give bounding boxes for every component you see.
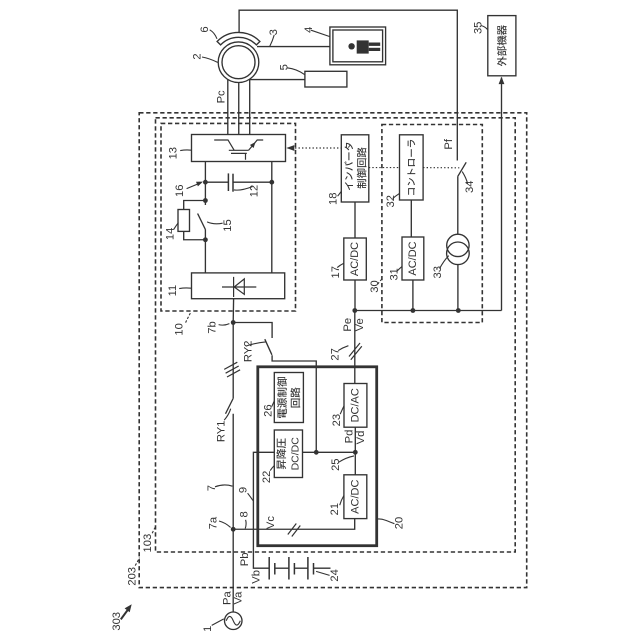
svg-text:Pc: Pc bbox=[216, 90, 228, 103]
IGBT emitter arrow bbox=[250, 142, 256, 148]
bundle slashes on main line bbox=[224, 362, 240, 377]
leader label 20 none bbox=[0, 0, 1, 1]
node RY2 junction dot bbox=[314, 450, 319, 455]
svg-text:Pd: Pd bbox=[343, 430, 355, 444]
svg-text:16: 16 bbox=[174, 185, 186, 197]
wire main RY1 to 7a bbox=[232, 414, 234, 530]
svg-text:30: 30 bbox=[369, 280, 381, 292]
wire Pe (bus to box23) bbox=[354, 311, 356, 384]
wire cap bank seg1 bbox=[275, 567, 289, 569]
AC source 1 bbox=[225, 612, 243, 630]
arrowhead into box 35 bbox=[499, 77, 505, 85]
transformer 33 lower circle bbox=[447, 242, 470, 265]
wire phase v bbox=[238, 82, 240, 134]
leader label 33 bbox=[440, 256, 449, 269]
capacitor bank 24 plates bbox=[269, 557, 313, 580]
leader label 10 (dashed) bbox=[186, 313, 191, 323]
leader label 21 bbox=[340, 496, 344, 506]
node resistor top dot bbox=[203, 198, 208, 203]
svg-text:9: 9 bbox=[238, 487, 250, 493]
dotted control line 32 to 34 bbox=[423, 167, 459, 169]
leader label 30 (dashed) bbox=[378, 279, 382, 284]
wire phase u bbox=[227, 80, 229, 135]
leader label RY1 bbox=[224, 409, 231, 421]
svg-text:3: 3 bbox=[268, 29, 280, 35]
AC source sine wave bbox=[226, 616, 240, 625]
svg-text:Pb: Pb bbox=[239, 553, 251, 567]
leader label 34 bbox=[462, 172, 467, 184]
resistor 14 bbox=[178, 210, 190, 232]
inverter control box 18 bbox=[341, 135, 369, 202]
svg-text:8: 8 bbox=[238, 511, 250, 517]
svg-text:5: 5 bbox=[279, 64, 291, 70]
svg-text:31: 31 bbox=[388, 268, 400, 280]
wire RY2 to box 20 bbox=[272, 355, 316, 452]
wire cap 12 right bbox=[233, 181, 272, 183]
wire bus to external device 35 bbox=[501, 78, 503, 311]
wire main 7b down bbox=[232, 323, 234, 399]
leader label 16 arrow bbox=[187, 183, 200, 188]
node cap right dot bbox=[269, 180, 274, 185]
svg-text:13: 13 bbox=[168, 147, 180, 159]
svg-text:DC/AC: DC/AC bbox=[349, 388, 361, 422]
power control circuit box 26 bbox=[274, 373, 303, 423]
wire resistor branch bottom bbox=[184, 231, 206, 239]
wire cap 12 left bbox=[205, 181, 228, 183]
node 7b dot bbox=[231, 320, 236, 325]
svg-text:7b: 7b bbox=[206, 321, 218, 333]
svg-text:Ve: Ve bbox=[354, 318, 366, 331]
leader label 2 bbox=[202, 57, 218, 62]
controller box 32 bbox=[400, 135, 424, 200]
coil 6 (arc segment) bbox=[217, 32, 260, 44]
label controller (box 32) bbox=[407, 140, 415, 195]
dashed box 103 (power conditioner) bbox=[156, 118, 516, 552]
wire 7a to source bbox=[232, 529, 234, 612]
buck-boost box 22 bbox=[274, 430, 302, 478]
leader label 7b bbox=[219, 324, 230, 326]
leader label 27 bbox=[338, 346, 348, 351]
svg-text:4: 4 bbox=[303, 27, 315, 33]
wire 9 bbox=[253, 452, 274, 568]
leader label 20 bbox=[377, 519, 395, 524]
node 16 dot bbox=[203, 180, 208, 185]
svg-text:RY1: RY1 bbox=[216, 421, 228, 443]
arrowhead label 16 bbox=[196, 182, 203, 187]
wire box31 to bus bbox=[412, 280, 414, 311]
bundle slashes on wire 8 bbox=[288, 524, 301, 537]
external device box 35 bbox=[488, 16, 516, 76]
svg-text:6: 6 bbox=[199, 26, 211, 32]
leader label 4 bbox=[311, 30, 330, 36]
leader label 26 bbox=[272, 401, 275, 407]
dashed box 30 (controller unit) bbox=[382, 125, 482, 323]
leader label 35 bbox=[481, 26, 487, 30]
capacitor C12 left plate bbox=[227, 173, 229, 191]
transformer 33 upper circle bbox=[447, 234, 469, 256]
converter box 11 bbox=[192, 273, 285, 299]
wire box17 to bus bbox=[354, 280, 356, 311]
node bus-33 dot bbox=[456, 308, 461, 313]
wire box18 to box17 bbox=[354, 202, 356, 238]
leader label 1 bbox=[212, 619, 224, 626]
wire transformer 33 to bus bbox=[457, 265, 459, 311]
switch 34 blade bbox=[458, 162, 467, 176]
leader label 3 bbox=[270, 35, 274, 46]
node bus-17 dot bbox=[352, 308, 357, 313]
svg-text:26: 26 bbox=[263, 404, 275, 416]
sensor box 5 bbox=[305, 71, 347, 87]
svg-text:14: 14 bbox=[165, 228, 177, 240]
wire box13 left leg upper bbox=[204, 162, 206, 206]
svg-text:34: 34 bbox=[464, 181, 476, 193]
wire phase w bbox=[249, 79, 251, 134]
leader label 22 bbox=[270, 466, 274, 471]
svg-text:Pe: Pe bbox=[342, 318, 354, 332]
svg-text:32: 32 bbox=[385, 195, 397, 207]
svg-text:Va: Va bbox=[233, 591, 245, 605]
svg-text:Vd: Vd bbox=[355, 431, 367, 445]
leader label 5 bbox=[287, 68, 304, 75]
leader label 24 bbox=[316, 571, 330, 575]
rotor ring 2 inner bbox=[222, 46, 255, 79]
wire to sensor 5 bbox=[249, 79, 305, 81]
svg-text:DC/DC: DC/DC bbox=[290, 437, 302, 471]
diode symbol in box 11 bbox=[222, 277, 256, 297]
wire 8 bbox=[233, 519, 355, 530]
bundle slashes on Pe line (27) bbox=[349, 343, 362, 360]
wire coil-6 to node Pf top bbox=[239, 10, 457, 160]
svg-text:35: 35 bbox=[473, 22, 485, 34]
leader label 11 bbox=[179, 287, 191, 290]
leader label 7 bbox=[215, 485, 232, 487]
svg-text:7a: 7a bbox=[208, 516, 220, 529]
svg-text:21: 21 bbox=[329, 503, 341, 515]
leader label 23 bbox=[340, 406, 344, 415]
svg-text:24: 24 bbox=[329, 569, 341, 581]
wire box32 to box31 bbox=[410, 200, 412, 237]
svg-text:10: 10 bbox=[173, 323, 185, 335]
converter box 21 AC/DC bbox=[344, 475, 367, 519]
leader label 12 bbox=[234, 187, 253, 191]
power unit box 20 (thick) bbox=[258, 367, 377, 546]
svg-text:AC/DC: AC/DC bbox=[349, 480, 361, 514]
wire resistor branch top bbox=[184, 201, 206, 210]
leader label 203 (dashed) bbox=[135, 558, 139, 566]
wire 3 (to display 4) bbox=[257, 46, 330, 48]
label seigyo-kairo col2 (box 18) bbox=[357, 147, 367, 188]
svg-text:RY2: RY2 bbox=[243, 341, 255, 363]
node bus-31 dot bbox=[411, 308, 416, 313]
leader label 8 bbox=[244, 520, 247, 529]
wire box13 left leg lower bbox=[204, 230, 206, 273]
relay RY2 blade bbox=[265, 339, 272, 355]
wire 7b to RY2 bbox=[233, 323, 272, 339]
node 7a dot bbox=[231, 527, 236, 532]
converter box 23 DC/AC bbox=[344, 384, 367, 428]
svg-text:303: 303 bbox=[111, 612, 123, 631]
arrowhead into box 13 bbox=[286, 145, 294, 151]
svg-text:2: 2 bbox=[192, 53, 204, 59]
inverter box 13 bbox=[192, 135, 286, 162]
person icon in box 4 bbox=[348, 40, 380, 53]
wire switch34 to transformer 33 bbox=[457, 177, 459, 235]
label dengen-seigyo (power control) col1 bbox=[277, 377, 287, 418]
svg-text:17: 17 bbox=[330, 266, 342, 278]
capacitor C12 right plate bbox=[232, 174, 234, 192]
leader label 13 bbox=[180, 149, 191, 152]
svg-text:Vb: Vb bbox=[251, 570, 263, 584]
wire box11 to node 7b bbox=[232, 299, 234, 323]
display box 4 inner bbox=[333, 30, 383, 62]
leader label 9 bbox=[248, 493, 253, 500]
node Pd dot bbox=[353, 450, 358, 455]
svg-text:33: 33 bbox=[432, 266, 444, 278]
rotor ring 2 outer bbox=[218, 42, 259, 83]
leader label 14 bbox=[174, 223, 179, 230]
svg-text:Vc: Vc bbox=[265, 516, 277, 529]
label inverter col1 (box 18) bbox=[344, 143, 353, 190]
node resistor bottom dot bbox=[203, 237, 208, 242]
label 303 arrow bbox=[121, 608, 129, 619]
label shoukouatsu (buck-boost) col1 bbox=[276, 438, 286, 469]
leader label 103 (dashed) bbox=[152, 526, 156, 533]
svg-text:AC/DC: AC/DC bbox=[407, 241, 419, 275]
wire box23 to box21 (node Pd) bbox=[354, 427, 356, 475]
svg-text:103: 103 bbox=[142, 534, 154, 553]
leader label 6 bbox=[210, 30, 217, 39]
leader label 7a bbox=[219, 521, 231, 527]
svg-text:11: 11 bbox=[167, 285, 179, 297]
display box 4 outer bbox=[330, 27, 386, 65]
wire box22 to node Pd bbox=[303, 451, 356, 453]
leader label 25 bbox=[339, 456, 354, 462]
wire cap bank seg3 bbox=[314, 567, 331, 569]
svg-text:23: 23 bbox=[331, 414, 343, 426]
svg-text:7: 7 bbox=[206, 485, 218, 491]
leader label 32 bbox=[393, 194, 400, 199]
dotted control line 18 to 13 bbox=[295, 147, 341, 149]
svg-text:20: 20 bbox=[394, 517, 406, 529]
wire box13 right leg bbox=[271, 162, 273, 273]
svg-text:12: 12 bbox=[249, 185, 261, 197]
svg-text:22: 22 bbox=[261, 471, 273, 483]
svg-text:25: 25 bbox=[330, 458, 342, 470]
leader label 17 bbox=[337, 263, 343, 267]
svg-text:Pf: Pf bbox=[443, 138, 455, 149]
AC/DC box 17 bbox=[344, 238, 367, 280]
wire cap bank seg2 bbox=[294, 567, 308, 569]
svg-text:27: 27 bbox=[330, 348, 342, 360]
svg-text:AC/DC: AC/DC bbox=[349, 242, 361, 276]
arrowhead label 303 bbox=[125, 604, 132, 612]
leader label 18 bbox=[338, 191, 342, 196]
IGBT symbol in box 13 bbox=[214, 140, 263, 160]
svg-text:1: 1 bbox=[202, 626, 214, 632]
dashed box 10 (inverter unit) bbox=[161, 123, 296, 311]
svg-text:18: 18 bbox=[327, 193, 339, 205]
label gaibu-kiki (external device) in box 35 bbox=[497, 25, 507, 66]
switch 15 blade bbox=[198, 214, 206, 230]
svg-text:203: 203 bbox=[127, 567, 139, 586]
dotted control line 18 to 32 bbox=[369, 167, 400, 169]
label kairo (circuit) col2 bbox=[290, 387, 300, 407]
leader label 31 bbox=[397, 267, 402, 272]
relay RY1 blade bbox=[226, 399, 234, 414]
leader label 15 bbox=[207, 222, 223, 224]
bus line y310 bbox=[355, 310, 502, 312]
AC/DC box 31 bbox=[402, 237, 424, 280]
leader label RY2 bbox=[246, 342, 266, 346]
svg-text:15: 15 bbox=[222, 219, 234, 231]
dashed box 203 (power conditioner system) bbox=[139, 113, 527, 588]
